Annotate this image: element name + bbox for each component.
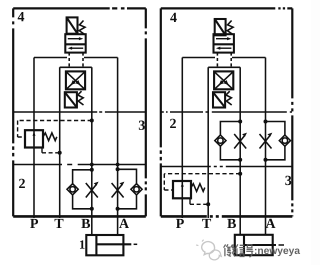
junction FC-A bottom (right) <box>264 158 268 162</box>
relief valve RV2 spring (right) <box>191 184 205 192</box>
wire pilot return right (left) <box>84 57 118 59</box>
junction FC-B bottom (left) <box>90 207 94 211</box>
check valve diamond FC-A (right) <box>279 135 290 146</box>
label 4 (right) <box>170 13 177 22</box>
label 4 (left) <box>18 12 25 21</box>
wire P line (left) <box>33 58 35 219</box>
watermark logo (WeChat) <box>196 240 221 260</box>
junction A-divider (left) <box>116 163 120 167</box>
port label A (right) <box>266 219 276 228</box>
solenoid S1 (right pilot valve) <box>215 19 226 35</box>
block border (right manifold, chain line) <box>161 8 292 216</box>
port label T (right) <box>202 219 211 228</box>
wire B line (left) <box>91 67 93 217</box>
cylinder 1 (left) <box>86 235 137 255</box>
relief valve RV1 drain (left) <box>41 148 43 153</box>
divider region4/region3 (left) <box>13 111 146 113</box>
watermark char hao <box>246 245 253 257</box>
junction drain-T (left) <box>58 151 62 155</box>
pilot interface dashed lines (right) <box>217 53 231 68</box>
relief valve RV2 body (right) <box>173 181 191 198</box>
junction pilot-B (right) <box>238 172 242 176</box>
junction FC-B top (right) <box>238 120 242 124</box>
relief valve RV2 arrow (right) <box>181 183 184 197</box>
throttle FC-B (right) <box>234 133 247 149</box>
label 2 (left) <box>19 179 25 188</box>
junction pilot-B (left) <box>90 119 94 123</box>
flow control FC-A loop (left) <box>118 169 137 209</box>
wire A line (left) <box>117 58 119 217</box>
wire main-stage top edge (right) <box>208 66 240 68</box>
divider region2/region3 (right) <box>161 166 292 168</box>
wire pilot return right (right) <box>232 57 266 59</box>
flow control FC-B loop (left) <box>73 170 92 209</box>
pilot valve V1 arrows (left) <box>68 37 84 50</box>
throttle FC-A (left) <box>112 182 125 198</box>
divider region4/region2 (right) <box>161 111 292 113</box>
junction FC-A top (right) <box>264 120 268 124</box>
throttle FC-A (right) <box>260 133 273 149</box>
wire pilot supply left (right) <box>182 57 215 59</box>
port label T (left) <box>55 219 64 228</box>
spring (right main valve, vertical zigzag) <box>226 91 232 105</box>
pilot valve V1 body (left) <box>65 34 85 52</box>
junction FC-B bottom (right) <box>238 158 242 162</box>
relief valve RV2 drain (right) <box>189 198 191 204</box>
cylinder 2 (right) <box>235 235 284 255</box>
solenoid S1 (left pilot valve) <box>67 17 78 33</box>
spring (right pilot valve, vertical zigzag) <box>227 21 233 35</box>
junction B-divider (left) <box>90 163 94 167</box>
wire pilot supply left (left) <box>34 57 67 59</box>
wire main-stage top edge (left) <box>60 66 92 68</box>
wire T line (left) <box>59 67 61 218</box>
pilot interface dashed lines (left) <box>69 53 83 68</box>
check valve diamond FC-B (left) <box>67 184 78 195</box>
wire A line (right) <box>265 58 267 217</box>
port label B (left) <box>81 219 90 228</box>
wire B line (right) <box>239 67 241 217</box>
watermark text latin <box>255 248 300 256</box>
port label B (right) <box>227 219 236 228</box>
relief valve RV1 body (left) <box>25 130 43 147</box>
divider region3/region2 (left) <box>13 164 146 166</box>
solenoid S2 (right main valve) <box>213 92 225 107</box>
relief valve RV1 arrow (left) <box>33 132 36 146</box>
spring (left pilot valve, vertical zigzag) <box>79 21 85 35</box>
main valve V2 box with crossed arrows (left) <box>66 71 85 89</box>
watermark char wei <box>224 244 236 256</box>
pilot valve V1 arrows (right) <box>216 37 232 50</box>
throttle FC-B (left) <box>86 182 99 198</box>
label 3 (left) <box>139 121 145 130</box>
spring (left main valve, vertical zigzag) <box>78 91 84 105</box>
port label P (right) <box>176 219 184 228</box>
check valve diamond FC-A (left) <box>131 184 142 195</box>
label 1 (cylinder) <box>80 240 85 248</box>
wire A to cylinder (right) <box>265 216 267 234</box>
relief valve RV1 spring (left) <box>43 133 57 141</box>
relief valve RV2 pilot dashed line (right) <box>164 174 240 190</box>
solenoid S2 (left main valve) <box>65 92 77 107</box>
port label P (left) <box>30 219 38 228</box>
flow control FC-B loop (right) <box>220 122 240 160</box>
relief valve RV1 pilot dashed line (left) <box>18 121 92 138</box>
wire T line (right) <box>207 67 209 218</box>
label 2 (right) <box>170 119 176 128</box>
junction FC-A top (left) <box>116 167 120 171</box>
label 3 (right) <box>285 176 291 185</box>
junction drain-T (right) <box>206 202 210 206</box>
port label A (left) <box>119 219 129 228</box>
main valve V2 box with crossed arrows (right) <box>214 71 233 89</box>
block border (left manifold, chain line) <box>13 8 146 216</box>
flow control FC-A loop (right) <box>266 122 285 160</box>
wire B to cylinder (right) <box>239 216 241 234</box>
junction FC-A bottom (left) <box>116 207 120 211</box>
wire B to cylinder (left) <box>91 216 93 235</box>
check valve diamond FC-B (right) <box>215 135 226 146</box>
junction FC-B top (left) <box>90 168 94 172</box>
watermark char xin <box>236 244 245 256</box>
wire P line (right) <box>181 58 183 219</box>
pilot valve V1 body (right) <box>214 34 234 52</box>
wire A to cylinder (left) <box>117 216 119 235</box>
